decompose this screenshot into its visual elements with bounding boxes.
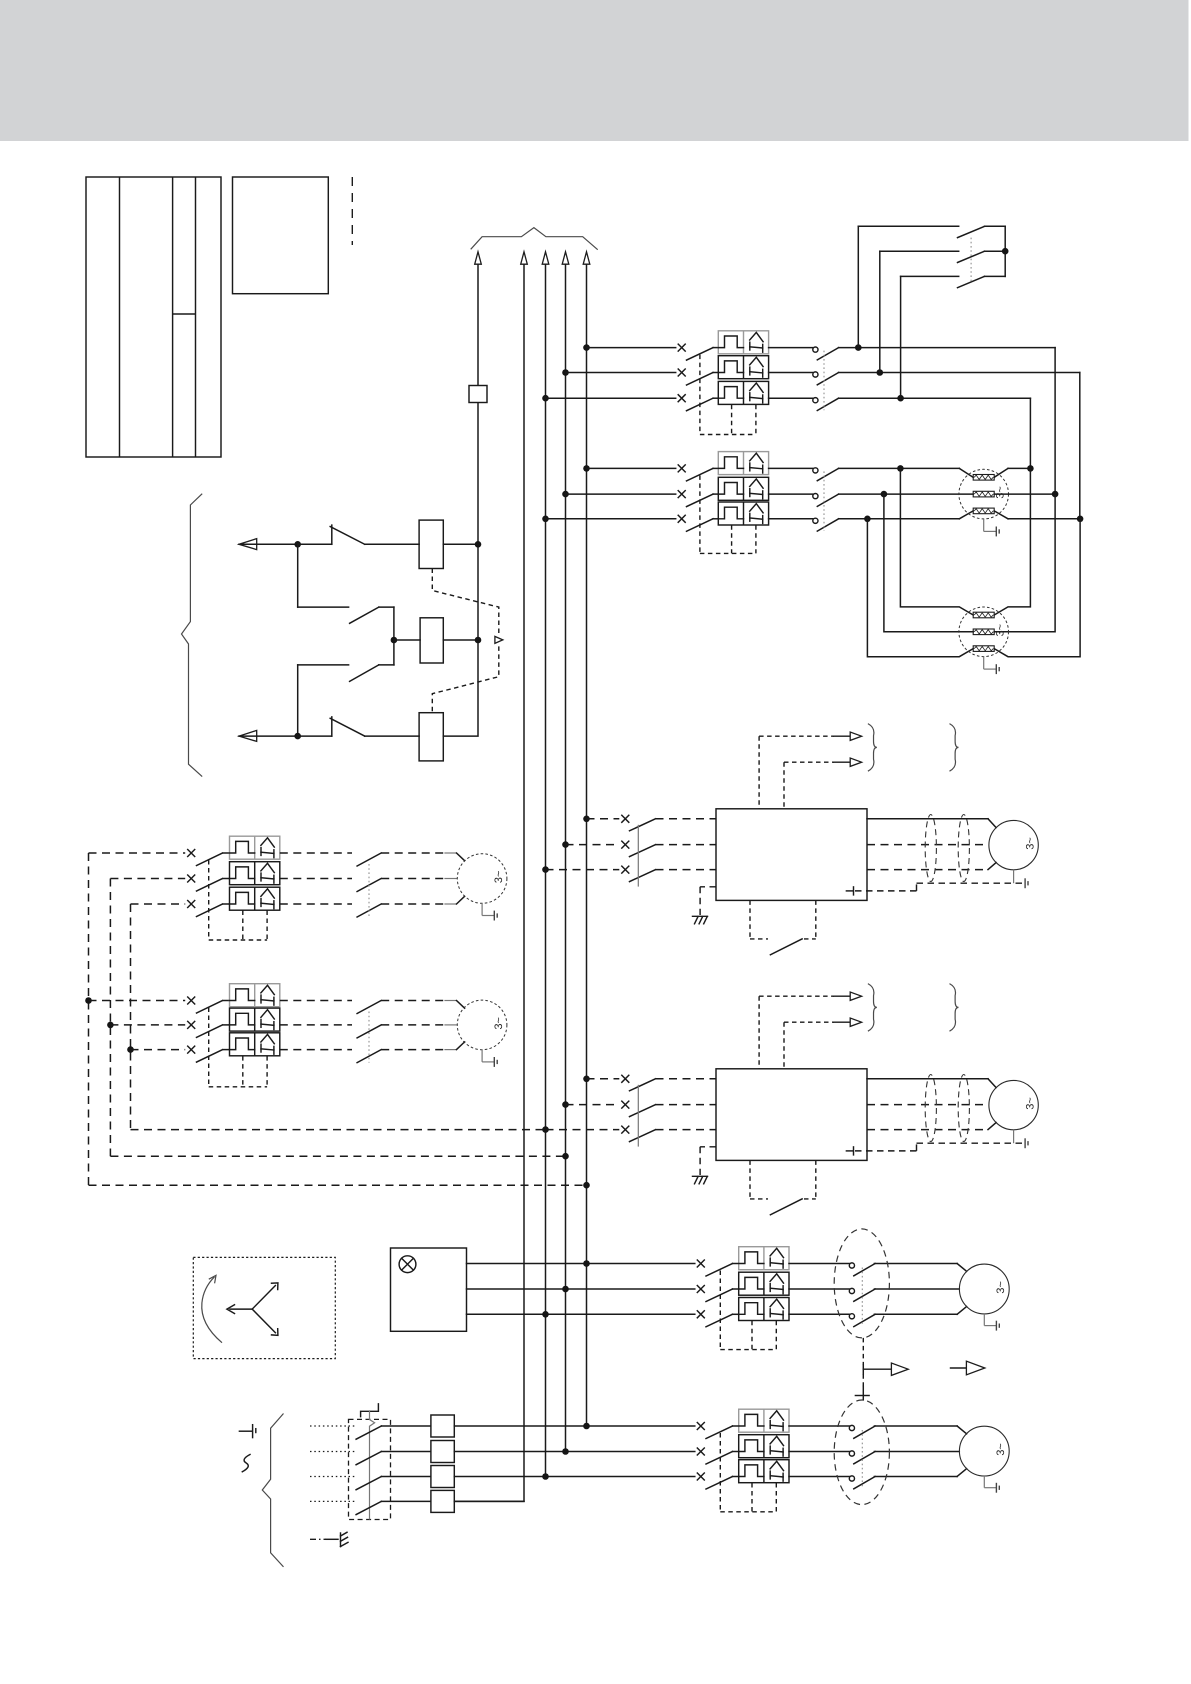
switch blade (706, 1426, 733, 1439)
E1 ground (983, 519, 985, 532)
junction dots lamp rows (583, 1260, 590, 1267)
input switch blade (630, 1105, 656, 1117)
earth electrode (700, 886, 716, 888)
main switch enclosure dashed box (349, 1419, 391, 1519)
signal brace 1 (868, 984, 877, 1032)
inverter input wire 1 (587, 1078, 620, 1080)
wire down to changeover (297, 544, 299, 607)
E1 element 2 (973, 491, 994, 497)
filter outputs rows 1-3 (454, 1425, 695, 1427)
output wire U (867, 1078, 988, 1080)
wire to motor (874, 1451, 959, 1453)
filter box 1 (431, 1415, 454, 1437)
cable screen ellipse 2 (958, 815, 969, 882)
left brace control section (182, 494, 203, 777)
dashed feeder wire row 2 (110, 1024, 185, 1026)
overload/magnetic release box row 1 (739, 1409, 789, 1432)
wire to motor (874, 1263, 957, 1265)
rotation arc arrow (202, 1277, 222, 1343)
switch blade (687, 398, 714, 411)
overload/magnetic release box row 3 (739, 1298, 789, 1321)
overload/magnetic release box row 2 (718, 356, 768, 379)
input switch link (637, 825, 639, 887)
inverter input wire 2 (566, 1104, 620, 1106)
overload/magnetic release box row 3 (718, 502, 768, 525)
wire row y=398.2 (546, 397, 676, 399)
control tap dashed 2 (783, 1022, 785, 1069)
main switch blade (356, 1477, 381, 1490)
junction dots inverter U1 taps (583, 816, 590, 823)
contactor wire + contact (769, 493, 813, 495)
cable screen ellipse 2 (958, 1075, 969, 1142)
contactor blade (357, 1025, 381, 1038)
dashed riser L1 (88, 853, 90, 1185)
overload/magnetic release box row 3 (230, 887, 280, 910)
coil K1 (419, 520, 443, 568)
changeover lower contact (298, 664, 349, 666)
motor ground (481, 1050, 483, 1062)
row2 wire to corner (839, 372, 1080, 374)
contactor wire + contact (769, 347, 813, 349)
heater E1 circle (959, 469, 1009, 519)
wire row y=518.8 (546, 518, 676, 520)
wire to filter (381, 1425, 431, 1427)
trip linkage dashes (208, 860, 210, 940)
switch blade (197, 1050, 223, 1063)
contactor dashed wire (280, 903, 352, 905)
output wire W (867, 869, 988, 871)
PE terminal (846, 890, 853, 892)
contactor dashed wire (280, 878, 352, 880)
fuse mark (678, 491, 685, 498)
contact mechanical link (823, 351, 825, 411)
E1 feeder verticals with dots (1027, 465, 1034, 472)
manual actuator (361, 1404, 379, 1417)
switch blade (687, 494, 714, 507)
motor (457, 854, 507, 904)
mechanical interlock K1-K3 (432, 569, 499, 634)
thermal contact blade (770, 1199, 802, 1215)
input switch blade (630, 819, 656, 831)
switch blade (197, 879, 223, 892)
dashed feeder wire row 2 (110, 878, 185, 880)
supply arrow L2 (521, 252, 528, 264)
junction dot bus4/row5 (562, 491, 569, 498)
supply arrow L4 (562, 252, 569, 264)
wire row y=347.6 (587, 347, 676, 349)
output wire W (867, 1129, 988, 1131)
Q0 blade pole2 (958, 251, 985, 262)
fuse mark (678, 344, 685, 351)
contactor enclosure ellipse (834, 1400, 889, 1505)
dashed feeder wire row 3 (131, 1049, 186, 1051)
phase Y arrows (230, 1308, 252, 1310)
wire to motor (874, 1476, 957, 1478)
inverter input wire 3 (546, 1129, 620, 1131)
lamp symbol (399, 1256, 416, 1273)
motor ground (983, 1314, 985, 1326)
lamp box (391, 1248, 467, 1331)
PE fork symbol (340, 1533, 342, 1547)
switch blade (687, 519, 714, 532)
svg-text:3~: 3~ (995, 1281, 1007, 1293)
dashed riser L2 (109, 879, 111, 1157)
filter box 3 (431, 1466, 454, 1488)
contactor wire + contact (769, 518, 813, 520)
PE dashed run (855, 1150, 917, 1152)
wire to motor (874, 1288, 959, 1290)
thermal contact blade (770, 939, 802, 955)
trip linkage dashes (208, 1008, 210, 1087)
contactor enclosure ellipse (834, 1229, 889, 1338)
contactor blade (357, 1001, 381, 1014)
title block table (86, 177, 221, 457)
riser junction dots motor group M4 (85, 997, 92, 1004)
input switch blade (630, 1079, 656, 1091)
contactor dashed wire (280, 852, 352, 854)
row1 wire to corner (839, 347, 1056, 349)
fuse mark (678, 465, 685, 472)
dashed feeder wire row 3 (131, 903, 186, 905)
fuse mark row 2 (697, 1448, 704, 1455)
main switch blade (356, 1501, 381, 1514)
overload/magnetic release box row 1 (230, 836, 280, 859)
wire to contactor (789, 1476, 849, 1478)
contactor wire + contact (769, 467, 813, 469)
control tap dashed 2 (783, 762, 785, 809)
changeover upper contact (298, 606, 349, 608)
fuse mark row 3 (697, 1473, 704, 1480)
signal brace 2 (950, 724, 959, 772)
E2 element 2 (973, 629, 994, 635)
fuse mark row 1 (697, 1260, 704, 1267)
dashed run L1 to bus5 (89, 1184, 587, 1186)
wire to contactor (789, 1451, 849, 1453)
switch blade (687, 373, 714, 386)
cable screen ellipse 1 (925, 815, 936, 882)
E1 element 1 (973, 475, 994, 481)
contactor blade (357, 879, 381, 892)
contact mechanical link (861, 1268, 863, 1327)
interlock arrow (495, 636, 503, 643)
dashed separator line (351, 177, 353, 245)
overload/magnetic release box row 2 (739, 1435, 789, 1458)
wire to contactor (789, 1263, 849, 1265)
switch blade (197, 853, 223, 866)
contact mechanical link (368, 864, 370, 917)
switch blade (687, 348, 714, 361)
svg-text:3~: 3~ (995, 1443, 1007, 1455)
fuse box F0 on bus 1 (469, 386, 487, 403)
supply arrow L1 (475, 252, 482, 264)
drop wires to heater E2 (900, 468, 973, 615)
input switch blade (630, 1130, 656, 1142)
switch blade (197, 904, 223, 917)
bus line 3 (545, 264, 547, 1476)
E2 element 3 (973, 646, 994, 652)
control arrow 1 (239, 539, 257, 550)
main switch Q0 wires (858, 225, 958, 227)
output wire U (867, 818, 988, 820)
signal brace 2 (950, 984, 959, 1032)
row4 wire to heater E1 (839, 467, 960, 469)
Q0 mechanical link (970, 238, 972, 284)
inverter input wire 1 (587, 818, 620, 820)
svg-text:3~: 3~ (1024, 837, 1036, 849)
overload/magnetic release box row 2 (230, 1008, 280, 1031)
overload/magnetic release box row 1 (718, 452, 768, 475)
lamp box output wires (467, 1263, 695, 1265)
dashed riser L3 (130, 904, 132, 1130)
bus line 1 (control feed) (443, 264, 478, 736)
rotation direction dotted box (193, 1257, 335, 1358)
supply arrow L5 (583, 252, 590, 264)
NC contact S2 (298, 735, 332, 737)
changeover common (393, 607, 395, 665)
dashed run L2 to bus4 (110, 1155, 565, 1157)
mains dotted lead 4 (310, 1500, 349, 1502)
trip linkage dashes (699, 475, 701, 553)
earth electrode (700, 1146, 716, 1148)
inlet brace (262, 1414, 283, 1567)
trip linkage dashes (699, 355, 701, 435)
switch blade (197, 1001, 223, 1014)
input switch link (637, 1085, 639, 1147)
junction dots to main switch (855, 344, 862, 351)
overload/magnetic release box row 1 (739, 1247, 789, 1270)
fuse mark (678, 395, 685, 402)
input switch blade (630, 870, 656, 882)
contactor blade (357, 1050, 381, 1063)
E2 ground (983, 657, 985, 670)
wire to motor (874, 1313, 957, 1315)
inlet terminal ground symbol (239, 1430, 251, 1432)
fuse mark row 1 (697, 1423, 704, 1430)
row3 wire to corner (839, 397, 1031, 399)
supply brace (471, 228, 598, 250)
actuator link with latch (370, 1410, 375, 1519)
svg-text:3~: 3~ (995, 624, 1007, 636)
inverter motor (989, 1080, 1038, 1129)
Q0 output link (1004, 226, 1006, 276)
wire to filter (381, 1451, 431, 1453)
fuse mark row 2 (697, 1286, 704, 1293)
cable screen ellipse 1 (925, 1075, 936, 1142)
dashed run L3 to bus3 (131, 1129, 546, 1131)
PE terminal (846, 1150, 853, 1152)
NC contact S1 (298, 543, 332, 545)
contactor wire + contact (769, 372, 813, 374)
overload/magnetic release box row 3 (739, 1460, 789, 1483)
junction dot bus4/row2 (562, 369, 569, 376)
wire to contactor (789, 1313, 849, 1315)
fuse mark (678, 369, 685, 376)
svg-text:3~: 3~ (1024, 1097, 1036, 1109)
junction dot bus5/row1 (583, 344, 590, 351)
switch blade (706, 1477, 733, 1490)
switch blade (706, 1452, 733, 1465)
PE lead dash-dot (310, 1538, 326, 1540)
coil K2 (394, 639, 420, 641)
svg-text:3~: 3~ (995, 486, 1007, 498)
row5 wire through heater E1 (839, 493, 974, 495)
main switch blade (356, 1426, 381, 1439)
legend box (233, 177, 329, 294)
mains dotted lead 2 (310, 1451, 349, 1453)
mains dotted lead 1 (310, 1425, 349, 1427)
wire to filter (381, 1476, 431, 1478)
overload/magnetic release box row 2 (739, 1272, 789, 1295)
wire down to bottom rung (297, 665, 299, 736)
junction dot bus3/row6 (542, 516, 549, 523)
svg-text:3~: 3~ (493, 1017, 505, 1029)
trip linkage dashes (719, 1271, 721, 1350)
control tap dashed 1 (758, 996, 760, 1069)
switch blade (706, 1289, 733, 1302)
dashed feeder wire row 1 (89, 1000, 186, 1002)
control tap dashed 1 (758, 736, 760, 809)
wire to contactor (789, 1425, 849, 1427)
heater E2 circle (959, 607, 1009, 657)
trip linkage dashes (719, 1433, 721, 1512)
input switch blade (630, 845, 656, 857)
inverter unit box (716, 809, 867, 901)
inverter unit box (716, 1069, 867, 1161)
junction dots inverter U2 taps (583, 1076, 590, 1083)
contact mechanical link (861, 1430, 863, 1489)
inverter input wire 2 (566, 844, 620, 846)
junction dot bus5/row4 (583, 465, 590, 472)
control arrow 2 (239, 730, 257, 741)
interlock link between contactors (862, 1338, 864, 1365)
motor ground (983, 1476, 985, 1488)
contactor dashed wire (280, 1000, 352, 1002)
mains dotted lead 3 (310, 1476, 349, 1478)
E2 element 1 (973, 612, 994, 618)
neutral return to bus 2 (454, 1500, 524, 1502)
thermal contact loop (749, 1160, 751, 1199)
wire row y=494.1 (566, 493, 676, 495)
motor earth stub (1013, 1130, 1015, 1143)
inverter motor (989, 820, 1038, 869)
release arrow (951, 1367, 967, 1369)
contactor blade (357, 904, 381, 917)
overload/magnetic release box row 3 (718, 381, 768, 404)
dashed feeder wire row 1 (89, 852, 186, 854)
supply arrow L3 (542, 252, 549, 264)
contactor dashed wire (280, 1049, 352, 1051)
junction dot bus3/row3 (542, 395, 549, 402)
junction dot bus1 (475, 541, 482, 548)
Q0 blade pole3 (958, 276, 985, 287)
E1 right connections (994, 468, 1008, 477)
contactor blade (357, 853, 381, 866)
bus line 4 (565, 264, 567, 1451)
coil K3 (419, 713, 443, 761)
motor connection wires (381, 852, 444, 854)
contactor dashed wire (280, 1024, 352, 1026)
motor earth stub (1013, 870, 1015, 883)
svg-text:3~: 3~ (493, 871, 505, 883)
contact mechanical link (368, 1012, 370, 1063)
bus line 5 (586, 264, 588, 1426)
inverter input wire 3 (546, 869, 620, 871)
contactor wire + contact (769, 397, 813, 399)
fuse mark (678, 515, 685, 522)
motor (457, 1000, 507, 1050)
junction dot (294, 541, 301, 548)
output wire V (867, 844, 989, 846)
switch blade (687, 468, 714, 481)
row6 wire to heater E1 (839, 518, 960, 520)
overload/magnetic release box row 2 (230, 862, 280, 885)
overload/magnetic release box row 2 (718, 477, 768, 500)
AC tilde symbol (242, 1455, 250, 1472)
motor ground (481, 903, 483, 915)
switch blade (706, 1314, 733, 1327)
wire row y=372.5 (566, 372, 676, 374)
main switch blade (356, 1452, 381, 1465)
junction dots heater drop (897, 465, 904, 472)
motor (959, 1264, 1009, 1314)
motor (959, 1426, 1009, 1476)
bus line 2 (neutral) (454, 264, 524, 1501)
wire row y=468.4 (587, 467, 676, 469)
fuse mark row 3 (697, 1311, 704, 1318)
wire to filter (381, 1500, 431, 1502)
overload/magnetic release box row 1 (718, 331, 768, 354)
switch blade (197, 1025, 223, 1038)
PE dashed run (855, 890, 917, 892)
thermal contact loop (749, 900, 751, 939)
motor connection wires (381, 1000, 444, 1002)
gray header band (0, 0, 1189, 141)
wire to contactor (789, 1288, 849, 1290)
filter box 2 (431, 1441, 454, 1463)
output wire V (867, 1104, 989, 1106)
switch blade (706, 1264, 733, 1277)
overload/magnetic release box row 3 (230, 1033, 280, 1056)
E1 element 3 (973, 508, 994, 514)
contact mechanical link (823, 471, 825, 530)
Q0 blade pole1 (958, 226, 985, 237)
overload/magnetic release box row 1 (230, 984, 280, 1007)
junction dots bottom rows (583, 1423, 590, 1430)
filter box 4 (431, 1490, 454, 1512)
wire to motor (874, 1425, 957, 1427)
signal brace 1 (868, 724, 877, 772)
